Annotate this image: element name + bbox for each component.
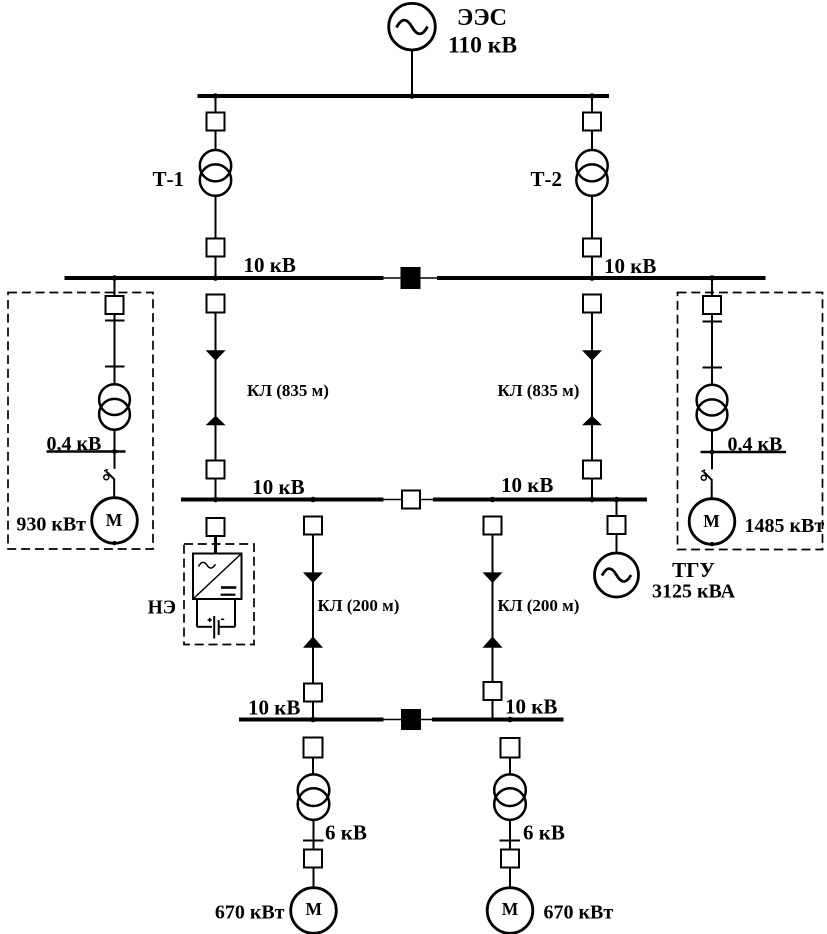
bus 10 кВ section 2 (left) [181,498,384,502]
wire cable KL-200 left [312,535,314,720]
wire transformer to 0.4kV bus right [711,430,713,453]
breaker Q14 (cable KL-200 right, top) [484,517,502,535]
wire breaker to 10kV bus 1 [215,257,217,279]
svg-text:КЛ (835 м): КЛ (835 м) [247,381,329,400]
junction KL-835 left on bus2 [213,497,219,503]
svg-text:КЛ (835 м): КЛ (835 м) [498,381,580,400]
LV circuit breaker (930 kW motor) [104,470,114,480]
junction load box right on bus1 [709,275,715,281]
breaker Q7 (cable KL-835 left, top) [207,295,225,313]
disconnector tick (6kV right) [500,840,521,842]
wire tie link bus1 [384,277,438,279]
generator ТГУ 3125 кВА [595,553,639,597]
disconnector tick upper (1485 kW) [703,321,723,323]
bus 0,4 кВ right [701,451,787,454]
wire transformer T-1 to breaker [215,197,217,239]
junction KL-200 right on bus2 [490,497,496,503]
motor M 670 кВт right [487,888,533,934]
svg-text:ТГУ: ТГУ [672,558,715,582]
svg-text:М: М [502,899,519,919]
junction on 0.4kV bus right [710,450,715,455]
wire breaker to transformer (930 kW) [114,314,116,385]
bus 10 кВ section 2 (right) [433,498,647,502]
svg-text:10 кВ: 10 кВ [501,473,553,497]
LV circuit breaker (1485 kW motor) [701,470,711,480]
bus 10 кВ section 1 (right) [437,276,766,280]
breaker Q4 (LV side T-2) [583,239,601,257]
tie breaker bus2 (open, hollow) [402,491,420,509]
wire cable KL-835 left [215,313,217,500]
breaker Q15 (cable KL-200 right, bottom) [484,682,502,700]
svg-text:6 кВ: 6 кВ [523,821,565,845]
bus 10 кВ section 1 (left) [65,276,384,280]
wire cable KL-200 right [492,535,494,720]
svg-text:НЭ: НЭ [148,598,176,619]
disconnector tick (6kV left) [303,840,324,842]
wire breaker to generator TGU [616,534,618,553]
breaker Q3 (HV side T-2) [583,113,601,131]
wire breaker to motor 670 right [509,868,511,889]
svg-text:КЛ (200 м): КЛ (200 м) [498,596,580,615]
breaker Q5 (930 kW feeder) [106,296,124,314]
junction TGU on bus2 [614,497,620,503]
cable arrow up (KL-200 right) [483,636,503,647]
wire breaker to motor 670 left [313,868,315,889]
wire breaker to transformer left 670 [312,758,314,776]
wire breaker to motor 1485 kW [711,479,713,499]
wire source to 110kV bus [411,50,413,96]
cable arrow down (KL-835 left) [206,350,226,361]
breaker Q12 (cable KL-200 left, top) [304,517,322,535]
wire 0.4kV bus to LV breaker left [114,452,116,469]
svg-text:10 кВ: 10 кВ [505,695,557,719]
wire bus1 to breaker (1485 kW feeder) [711,278,713,296]
junction T-1 on bus1 [213,275,219,281]
cable arrow down (KL-835 right) [582,350,602,361]
wire transformer T-2 to breaker [591,197,593,239]
junction KL-835 right on bus2 [589,497,595,503]
bus 10 кВ section 3 (left) [239,718,384,722]
svg-text:670 кВт: 670 кВт [544,902,614,924]
bus 10 кВ section 3 (right) [432,718,564,722]
wire breaker to transformer (1485 kW) [711,314,713,386]
svg-text:КЛ (200 м): КЛ (200 м) [318,596,400,615]
breaker Q17 (670 kW left) [304,738,323,758]
transformer 10/0.4 right [697,385,728,430]
cable arrow down (KL-200 right) [483,572,503,583]
junction motor left on bus3 [310,717,316,723]
wire cable KL-835 right [591,313,593,500]
tie breaker bus3 (closed, filled) [401,709,421,730]
svg-text:670 кВт: 670 кВт [215,902,285,924]
motor M 930 кВт [92,498,138,546]
wire breaker to 10kV bus 1 [591,257,593,279]
bus 0,4 кВ left [47,450,126,453]
bus 110 кВ [198,94,610,98]
cable arrow up (KL-835 left) [206,416,226,426]
converter AC/DC (NE) [193,554,242,600]
junction T-2 on 110kV bus [589,93,595,99]
wire breaker to motor 930 kW [113,479,115,498]
battery GB (NE) [197,599,235,639]
wire 110kV bus to breaker T-1 [215,96,217,113]
breaker Q16 (TGU) [608,516,626,534]
junction T-1 on 110kV bus [213,93,219,99]
breaker Q6 (1485 kW feeder) [703,296,721,314]
svg-text:10 кВ: 10 кВ [248,696,300,720]
svg-text:930 кВт: 930 кВт [16,514,86,536]
wire 0.4kV bus to LV breaker right [711,452,713,469]
wire tie link bus2 [384,499,434,501]
wire bus1 to breaker (930 kW feeder) [114,278,116,296]
disconnector tick upper (930 kW) [105,320,125,322]
breaker Q11 (storage NE feeder) [207,518,225,536]
transformer 10/0.4 left [99,384,130,429]
generator ЭЭС (system source) [389,3,436,50]
junction T-2 on bus1 [589,275,595,281]
svg-text:М: М [703,511,720,531]
breaker Q10 (cable KL-835 right, bottom) [583,461,601,479]
breaker Q20 (6kV right) [501,850,519,868]
svg-text:ЭЭС: ЭЭС [457,5,507,31]
svg-text:10 кВ: 10 кВ [604,254,656,278]
svg-text:Т-1: Т-1 [153,167,185,191]
svg-text:10 кВ: 10 кВ [244,253,296,277]
svg-text:Т-2: Т-2 [531,167,563,191]
dashed enclosure 1485 кВт load [678,293,823,550]
wire transformer to 0.4kV bus left [114,429,116,452]
svg-text:М: М [106,510,123,530]
breaker Q1 (HV side T-1) [207,113,225,131]
junction KL-200 left on bus2 [310,497,316,503]
breaker Q2 (LV side T-1) [207,239,225,257]
transformer T-2 [576,150,607,196]
svg-text:3125 кВА: 3125 кВА [652,581,736,603]
junction source on 110kV bus [409,93,415,99]
wire transformer to breaker (6kV right) [509,819,511,850]
transformer 10/6 right [494,774,526,819]
breaker Q13 (cable KL-200 left, bottom) [304,684,322,702]
breaker Q8 (cable KL-835 left, bottom) [207,461,225,479]
junction motor right on bus3 [507,717,513,723]
wire breaker to transformer right 670 [509,758,511,776]
wire tie link bus3 [384,719,433,721]
wire breaker to transformer T-2 [591,131,593,152]
transformer T-1 [200,150,231,196]
tie breaker bus1 (closed, filled) [401,267,421,289]
wire breaker to converter NE [214,536,217,554]
motor M 1485 кВт [689,499,735,547]
motor M 670 кВт left [291,888,337,934]
dashed enclosure 930 кВт load [8,293,153,550]
svg-text:10 кВ: 10 кВ [252,475,304,499]
wire bus2 to breaker TGU [616,500,618,517]
svg-text:1485 кВт: 1485 кВт [745,515,825,537]
wire breaker to transformer T-1 [215,131,217,152]
svg-text:110 кВ: 110 кВ [448,33,517,59]
wire transformer to breaker (6kV left) [313,819,315,850]
cable arrow up (KL-835 right) [582,416,602,426]
disconnector tick lower (1485 kW) [703,367,723,369]
breaker Q19 (670 kW right) [501,738,520,758]
transformer 10/6 left [298,774,330,819]
dashed enclosure НЭ storage [184,544,254,645]
svg-text:М: М [306,899,323,919]
svg-text:6 кВ: 6 кВ [325,821,367,845]
cable arrow up (KL-200 left) [303,636,323,647]
label ЭЭС 110 кВ [448,5,517,59]
breaker Q18 (6kV left) [304,850,322,868]
junction on 0.4kV bus left [112,449,117,454]
disconnector tick lower (930 kW) [105,366,125,368]
wire 110kV bus to breaker T-2 [591,96,593,113]
breaker Q9 (cable KL-835 right, top) [583,295,601,313]
junction load box left on bus1 [112,275,118,281]
cable arrow down (KL-200 left) [303,572,323,583]
